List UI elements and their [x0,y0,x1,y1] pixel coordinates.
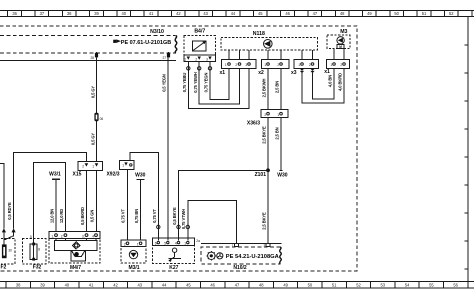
svg-text:1: 1 [330,63,332,67]
sensor B4/7 symbol (box with diagonal arrow) [193,41,207,51]
connector bullets on K27 wires [157,225,190,228]
outer harness dashed boundary box [0,26,357,271]
svg-text:N118: N118 [253,31,265,37]
svg-text:M4/7: M4/7 [70,265,81,271]
svg-text:2,5 BN: 2,5 BN [274,81,279,93]
svg-text:X15: X15 [73,171,82,177]
svg-text:N3/10: N3/10 [150,29,164,35]
svg-text:0,5 YEGN: 0,5 YEGN [161,74,166,92]
svg-text:47: 47 [235,282,240,287]
svg-text:4,0 BN: 4,0 BN [327,75,332,87]
svg-text:49: 49 [283,282,288,287]
connector X92/3 [120,161,135,170]
wire 0,75 YEGN from B4/7 pin 3 to N118 x1 pin 1 [210,61,229,99]
continuation arrow on RDYE wire [12,228,16,232]
svg-text:2: 2 [309,63,311,67]
svg-text:4,0 BKRD: 4,0 BKRD [337,73,342,91]
wire 4,0 BKRD from M3 x1 pin 2 looping to x3 pin 1 [302,68,344,103]
svg-text:48: 48 [259,282,264,287]
svg-text:42: 42 [176,11,181,16]
svg-text:x2: x2 [258,70,264,76]
svg-text:M3: M3 [340,29,347,35]
svg-text:1: 1 [92,164,94,168]
svg-text:4: 4 [92,234,94,238]
svg-text:1,: 1, [51,234,54,238]
wire 12,0 BN from ground W3/1 to M4/7 pin 1 [55,179,57,231]
N10/2 pin 1 [232,243,238,248]
svg-text:12,0 BN: 12,0 BN [49,209,54,223]
connector bullet on YEBU wire [187,67,190,70]
svg-text:1: 1 [184,241,186,245]
wire 0,5 GN from X15 pin 1 to M4/7 pin 4 [95,170,97,231]
connector X15 [78,161,102,170]
svg-text:2: 2 [124,243,126,247]
wire 0,75 BN from ground W30 to pump M3/1 pin 1 [140,180,142,241]
svg-text:55: 55 [429,282,434,287]
svg-text:X36/3: X36/3 [247,120,260,126]
svg-text:2: 2 [277,63,279,67]
connector x3 of N118 [294,60,319,69]
svg-text:56: 56 [453,282,458,287]
mating arrows below connector x3 pin 2 [310,69,314,74]
N3/10 reference icon (hand) [113,39,121,43]
N3/10 connector strip line [0,60,176,62]
svg-text:53: 53 [381,282,386,287]
svg-text:47: 47 [313,11,318,16]
fuse F2 dashed box with torn left edge [1,239,15,264]
M3/1 pin row with pins 2 1 [121,240,146,247]
svg-text:PE 54.21-U-2108GA: PE 54.21-U-2108GA [226,254,279,260]
svg-text:x1: x1 [324,69,330,75]
B4/7 pin row with pins 1 2 3 [184,55,216,62]
fuse F2 symbol [2,244,12,258]
svg-text:38: 38 [67,11,72,16]
connector x2 of N118 [262,60,290,69]
wire branch from Z101 to relay K27 pin 3 [179,170,269,240]
M3 stub wires to connector x1 [334,49,344,60]
svg-text:43: 43 [138,282,143,287]
svg-text:2: 2 [264,113,266,117]
svg-text:2,: 2, [61,234,64,238]
svg-text:2: 2 [235,63,237,67]
ground W30 terminal bar (left) [137,179,145,181]
svg-text:0,75 YEBU: 0,75 YEBU [182,73,187,93]
wire 2,5 BN from X36/3 down to ground W30 [280,118,282,171]
top scale ruler [0,11,474,17]
inline connector sleeve on GY wire [94,113,103,121]
fuel pump M3 dashed box [327,35,350,49]
wire 0,5 BKRD from X15 pin 2 to M4/7 pin 3 [85,170,87,231]
M3/1 pump symbol [129,250,137,258]
svg-text:48: 48 [340,11,345,16]
svg-text:F2: F2 [1,264,7,270]
svg-text:36: 36 [12,11,17,16]
svg-text:39: 39 [94,11,99,16]
svg-text:W3/1: W3/1 [49,171,61,177]
N118 pin stub wires to connectors [229,50,313,60]
svg-text:40: 40 [122,11,127,16]
splice Z101 junction dot [266,168,270,172]
svg-text:41: 41 [89,282,94,287]
K27 relay contact symbol [168,248,181,262]
svg-text:0,75 BN: 0,75 BN [134,209,139,223]
svg-text:X92/3: X92/3 [106,171,119,177]
svg-text:41: 41 [149,11,154,16]
M4/7 internal pump band [55,240,97,250]
connector bullet on YEWH wire [198,67,201,70]
control unit N3/10 dashed box with torn right edge [0,36,177,54]
wire from off-page left to fuse F2 [0,163,4,228]
wire 0,5 RDYE from X15 pin 2 down to fuse F2 [14,152,87,228]
fuel pump M3/1 dashed box [121,240,146,263]
svg-text:2,5 BN: 2,5 BN [274,127,279,139]
svg-text:45: 45 [258,11,263,16]
svg-text:0,5 GY: 0,5 GY [90,133,95,146]
svg-text:3: 3 [206,58,208,62]
svg-text:42: 42 [113,282,118,287]
fuse F32 dashed box [22,239,46,264]
svg-text:0,5 GY: 0,5 GY [90,86,95,99]
wire 2,5 BKWH from x2 pin 1 to X36/3 [267,68,269,109]
svg-text:8: 8 [38,248,40,252]
fuel pump unit M4/7 dashed box [49,232,100,263]
svg-text:2: 2 [82,164,84,168]
svg-text:N10/2: N10/2 [233,265,247,271]
control module N118 dashed box [221,38,317,51]
svg-text:2: 2 [195,58,197,62]
svg-text:1: 1 [277,113,279,117]
wire 0,75 VT from X92/3 pin 1 down to pump M3/1 pin 2 [126,170,128,241]
svg-text:30: 30 [8,249,12,253]
M4/7 pump symbol (diamond with port) [72,242,80,249]
wire 0,75 YEBU from B4/7 pin 1 to N118 x1 pin 3 [188,61,249,108]
svg-text:2,5 BKWH: 2,5 BKWH [261,78,266,97]
svg-text:B4/7: B4/7 [194,29,205,35]
svg-text:1: 1 [264,63,266,67]
F2 feed wires joining fuse top [4,232,14,244]
svg-text:2: 2 [340,63,342,67]
M4/7 pin stub wires into band [56,238,96,240]
svg-text:45: 45 [186,282,191,287]
svg-text:1: 1 [137,243,139,247]
svg-text:0,75 VTWH: 0,75 VTWH [181,209,186,229]
svg-text:1: 1 [184,58,186,62]
svg-text:27: 27 [162,56,166,60]
svg-text:43: 43 [203,11,208,16]
svg-text:W30: W30 [277,173,288,179]
svg-text:28: 28 [90,56,94,60]
svg-text:44: 44 [231,11,236,16]
svg-text:5: 5 [164,241,166,245]
svg-text:4: 4 [175,241,177,245]
svg-text:51: 51 [422,11,427,16]
svg-text:2,5 BKYE: 2,5 BKYE [261,212,266,230]
continuation arrow into F2 [2,228,6,232]
M4/7 pin row with pins 1 2 3 4 [49,232,100,239]
N10/2 gear icon [207,251,216,260]
svg-text:52: 52 [449,11,454,16]
relay K27 dashed box [153,245,195,263]
svg-text:1: 1 [225,63,227,67]
svg-text:44: 44 [162,282,167,287]
svg-text:2a: 2a [196,239,200,243]
svg-text:0,75 YEGN: 0,75 YEGN [204,72,209,92]
svg-text:39: 39 [40,282,45,287]
ground W3/1 terminal bar [52,178,60,180]
svg-text:1: 1 [122,164,124,168]
connector X36/3 [261,110,288,118]
svg-text:x3: x3 [291,70,297,76]
svg-text:38: 38 [16,282,21,287]
svg-text:F32: F32 [33,264,42,270]
svg-text:49: 49 [367,11,372,16]
module N10/2 dashed box with torn right edge [201,247,281,264]
wire 0,75 VT from X92/3 pin 2 over to relay K27 pin 1 [130,153,158,241]
svg-text:50: 50 [394,11,399,16]
wire 2,5 BKYE from Z101 down to module N10/2 [267,170,269,243]
svg-text:0,5 GN: 0,5 GN [90,210,95,223]
svg-text:W30: W30 [135,172,146,178]
svg-text:6: 6 [155,241,157,245]
wire 4,0 BN from M3 x1 pin 1 looping to x3 pin 2 [313,68,335,99]
wire 2,5 BK from x2 pin 2 to X36/3 [280,68,282,109]
N3/10 pin 28 [90,52,98,60]
wire 2,5 BKYE from X36/3 down to splice Z101 [267,118,269,171]
N10/2 pin 3 [264,243,270,248]
wire 0,75 YEWH from B4/7 pin 2 to N118 x1 pin 2 [199,61,239,104]
svg-text:54: 54 [405,282,410,287]
svg-text:06: 06 [100,117,104,121]
svg-text:12,0 RD: 12,0 RD [59,209,64,223]
svg-text:0,75 VT: 0,75 VT [152,209,157,223]
svg-text:K27: K27 [169,265,178,271]
svg-text:37: 37 [40,11,45,16]
bottom scale ruler [0,282,474,288]
svg-text:1: 1 [298,63,300,67]
M3 pump symbol with motor M [337,37,344,49]
sensor B4/7 dashed box [184,36,216,55]
svg-text:2,5 BKYE: 2,5 BKYE [261,126,266,144]
svg-text:0,5 RDYE: 0,5 RDYE [7,202,12,220]
svg-text:0,5 BKYE: 0,5 BKYE [172,207,177,225]
svg-text:0,5 BKRD: 0,5 BKRD [80,207,85,225]
wire 12,0 RD from M4/7 pin 2 up and over to fuse F32 pin 5 [34,162,66,244]
fuse F32 symbol [30,243,40,261]
svg-text:3: 3 [245,63,247,67]
svg-text:M: M [339,45,342,49]
svg-text:46: 46 [210,282,215,287]
right page frame with ticks [465,17,469,282]
svg-text:0,75 VT: 0,75 VT [121,209,126,223]
connector x1 of N118 [222,60,257,69]
connector bullet on YEGN wire [208,67,211,70]
svg-text:x1: x1 [220,70,226,76]
M4/7 suction strainer symbol [71,250,86,260]
N10/2 star icon [217,253,223,259]
svg-text:50: 50 [308,282,313,287]
K27 pin row with pins 6 5 4 1 [153,238,195,245]
mating arrows below connector x3 pin 1 [300,69,304,74]
N3/10 pin 27 [162,52,170,60]
svg-text:3,: 3, [82,234,85,238]
wire 0,5 GY from N3/10 pin 28 down to X15 pin 1 [96,58,98,162]
svg-text:M3/1: M3/1 [128,265,139,271]
N10/2 terminal strip line with label 2a [196,239,281,244]
svg-text:PE 07.61-U-2101GB: PE 07.61-U-2101GB [121,40,172,46]
svg-text:40: 40 [65,282,70,287]
N118 internal pump symbol [264,40,273,49]
wire 0,75 VTWH from K27 pin 4 over to module N10/2 pin 1 [188,200,237,243]
connector x1 of M3 [326,60,349,69]
ground W30 terminal bar (right) [280,170,283,172]
svg-text:Z101: Z101 [255,172,267,178]
svg-text:51: 51 [332,282,337,287]
wire 0,5 YEGN from N3/10 pin 27 down to relay K27 pin 2 [167,58,169,241]
svg-text:46: 46 [285,11,290,16]
svg-text:0,75 YEWH: 0,75 YEWH [193,72,198,93]
svg-text:52: 52 [356,282,361,287]
